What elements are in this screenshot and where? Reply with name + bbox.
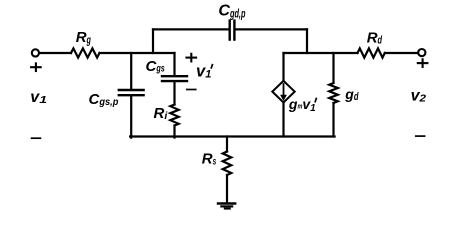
svg-text:Cgd,p: Cgd,p xyxy=(218,3,245,21)
svg-text:Rd: Rd xyxy=(367,29,383,46)
svg-text:Rs: Rs xyxy=(202,150,217,167)
svg-text:v2: v2 xyxy=(411,88,427,105)
svg-text:gmv1: gmv1 xyxy=(288,96,316,114)
svg-text:Ri: Ri xyxy=(154,105,169,122)
svg-text:Rg: Rg xyxy=(76,29,91,46)
svg-text:gd: gd xyxy=(344,86,358,103)
svg-text:Cgs,p: Cgs,p xyxy=(89,91,119,108)
svg-text:Cgs: Cgs xyxy=(146,58,165,75)
svg-text:v1: v1 xyxy=(30,89,47,106)
svg-text:v1: v1 xyxy=(196,63,211,81)
